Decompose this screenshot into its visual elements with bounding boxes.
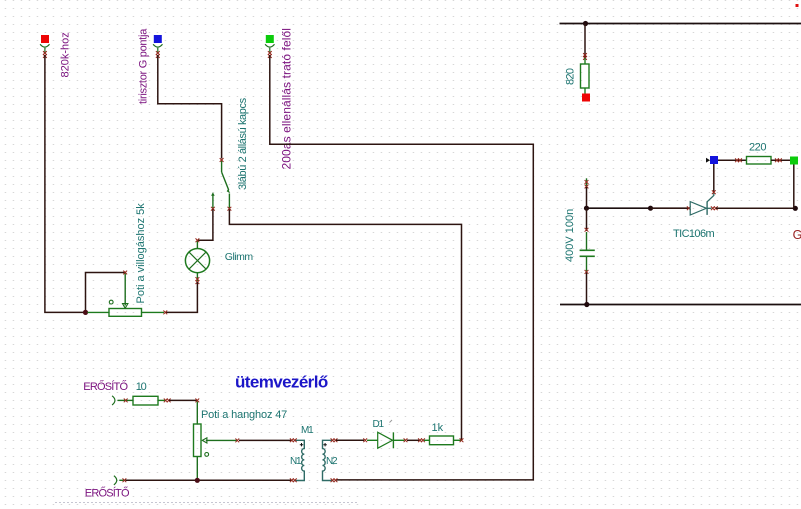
resistor 820 bottom pin: [584, 88, 586, 94]
pot wiper arrowhead: [123, 304, 128, 309]
thyristor cathode bar: [706, 201, 708, 215]
cross cap plate1: [585, 228, 589, 232]
pin stub blue square: [157, 48, 159, 54]
cross N2 top: [331, 438, 338, 442]
cross pot hanghoz top: [195, 399, 199, 403]
cross 820 top: [583, 53, 587, 60]
cross N1 top: [290, 438, 297, 442]
cross gate: [712, 190, 716, 194]
switch lever: [222, 172, 229, 190]
svg-text:ERŐSÍTŐ: ERŐSÍTŐ: [85, 486, 130, 500]
svg-text:ERŐSÍTŐ: ERŐSÍTŐ: [83, 379, 128, 393]
cross pot right: [163, 311, 167, 315]
diode D1 left pin: [367, 439, 378, 441]
wire cathode to right: [716, 207, 795, 209]
svg-text:tirisztor G pontja: tirisztor G pontja: [138, 28, 150, 104]
wire red-square net vertical: [45, 55, 86, 312]
resistor 1k left pin: [424, 439, 430, 441]
svg-text:N2: N2: [326, 456, 338, 467]
cross red square pin: [43, 51, 47, 58]
junction dot top rail: [583, 21, 588, 26]
svg-text:820k-hoz: 820k-hoz: [60, 32, 72, 77]
lamp X: [189, 252, 206, 269]
dashed sheet edge bottom: [55, 502, 358, 504]
wire left throw to lamp: [197, 210, 213, 241]
junction dot pot hanghoz bottom: [195, 478, 200, 483]
svg-text:N1: N1: [290, 456, 302, 467]
resistor 10 body: [133, 396, 158, 405]
wire bottom row: [126, 479, 293, 481]
cross EROSITO top pin: [124, 399, 128, 403]
pot hanghoz wiper line: [206, 439, 237, 441]
switch left throw arrowhead: [211, 192, 215, 195]
svg-text:400V 100n: 400V 100n: [564, 209, 576, 262]
diode D1 right pin: [393, 439, 404, 441]
svg-text:820: 820: [565, 68, 577, 85]
wire D1 to 1k: [407, 439, 421, 441]
pin stub EROSITO bottom: [119, 479, 123, 481]
svg-text:200as ellenállás trató felől: 200as ellenállás trató felől: [280, 28, 294, 170]
cross thyristor anode: [687, 206, 691, 210]
net flag blue square (tirisztor G pontja): [154, 35, 162, 43]
pot marker circle: [109, 300, 113, 304]
pin arc EROSITO bottom: [114, 476, 117, 485]
pin arc under green square: [265, 44, 274, 47]
cross wiper top: [123, 271, 127, 275]
svg-text:1k: 1k: [432, 422, 444, 434]
pot hanghoz wiper arrowhead: [202, 438, 207, 443]
net flag green square (200as): [266, 35, 274, 43]
tiny red mark top right: [796, 4, 799, 7]
wire mid rail to thyristor: [651, 207, 689, 209]
wire blue square to 220: [718, 159, 747, 161]
cross N1 bottom: [290, 478, 297, 482]
wire wiper to trafo: [239, 439, 292, 441]
cross wiper right: [235, 439, 239, 443]
cap stub top pin: [586, 178, 588, 186]
cross EROSITO bottom: [123, 478, 127, 482]
wire 220 right: [771, 159, 790, 161]
junction dot mid rail left: [584, 206, 589, 211]
resistor 820 body: [581, 64, 590, 88]
resistor 10 right pin: [158, 399, 165, 401]
pin arc EROSITO top: [112, 396, 115, 405]
wire green square down: [793, 165, 795, 209]
wire cap to bottom rail: [586, 273, 588, 305]
wire gate to blue square: [713, 164, 715, 192]
cross lamp bottom: [196, 277, 200, 284]
net flag red square 2: [582, 94, 590, 102]
mid rail: [587, 207, 691, 209]
cross D1 right: [404, 438, 408, 442]
wire N2 top to diode: [336, 439, 364, 441]
cross left throw: [211, 207, 215, 211]
svg-text:3lábú 2 állású kapcs: 3lábú 2 állású kapcs: [237, 97, 249, 190]
thyristor TIC106m triangle: [690, 202, 706, 215]
cross D1 left: [363, 438, 367, 442]
cross N2 bottom: [331, 478, 338, 482]
junction dot mid rail: [648, 206, 653, 211]
svg-text:D1: D1: [373, 419, 385, 430]
capacitor C pin2: [586, 257, 588, 272]
wire blue net: [158, 55, 222, 159]
lamp bottom pin: [196, 273, 198, 281]
capacitor C pin1: [586, 232, 588, 250]
pin stub red square: [44, 48, 46, 54]
pin arc under blue square: [153, 44, 162, 47]
cross blue square pin: [156, 51, 160, 58]
cross cap stub 1: [585, 180, 589, 184]
plus mark N1: [300, 443, 303, 446]
transformer N2 winding: [323, 440, 334, 480]
cross cathode: [711, 206, 718, 210]
junction dot pot left: [83, 310, 88, 315]
cross 1k left: [418, 438, 425, 442]
pin stub EROSITO top: [118, 399, 134, 401]
junction dot right: [793, 206, 798, 211]
cross green square pin: [268, 51, 272, 58]
glow lamp Glimm: [185, 249, 209, 273]
wire cap stub to rail: [586, 187, 588, 208]
wire rail to 820: [584, 24, 586, 59]
wire resistor to pot top: [169, 399, 197, 401]
pin stub green square: [269, 48, 271, 54]
cross 220 right: [775, 158, 782, 162]
cross cap stub 2: [585, 185, 589, 189]
blue square triangle marker: [706, 158, 710, 163]
svg-text:Glimm: Glimm: [225, 251, 254, 263]
pin arc under red square: [40, 44, 49, 47]
svg-text:10: 10: [136, 381, 147, 393]
wire cap top section: [586, 208, 588, 231]
tiny mark near D1: [390, 420, 393, 423]
top rail: [560, 23, 801, 25]
svg-text:220: 220: [749, 141, 766, 153]
svg-text:ütemvezérlő: ütemvezérlő: [235, 372, 328, 391]
svg-text:Poti a hanghoz 47: Poti a hanghoz 47: [201, 409, 287, 421]
cross cap pin2: [585, 270, 589, 274]
svg-text:M1: M1: [301, 425, 314, 436]
switch lever arrowhead: [227, 189, 230, 194]
svg-text:G: G: [793, 228, 801, 242]
wire right throw to 1k: [229, 210, 461, 441]
cross lamp top: [196, 238, 200, 242]
thyristor cathode stub: [707, 207, 711, 209]
svg-text:Poti a villogáshoz 5k: Poti a villogáshoz 5k: [135, 203, 147, 304]
capacitor plate 2: [580, 255, 595, 257]
cross resistor right: [164, 399, 171, 403]
wire green net: [270, 55, 534, 480]
net flag green square 2: [790, 157, 798, 165]
junction dot bottom rail: [584, 302, 589, 307]
diode D1 cathode bar: [392, 432, 394, 448]
pot right pin: [142, 311, 165, 313]
switch left throw pin: [212, 195, 214, 209]
pot hanghoz bottom pin: [196, 457, 198, 481]
pot hanghoz top pin: [196, 402, 198, 425]
diode D1 triangle: [378, 432, 393, 448]
transformer N1 winding: [294, 440, 304, 480]
resistor 1k right pin: [454, 439, 462, 441]
switch S1 common pin: [221, 161, 223, 173]
wire wiper loop: [86, 273, 126, 313]
cross switch common: [220, 158, 224, 162]
resistor 220 body: [747, 157, 772, 165]
cross 1k right: [460, 438, 464, 442]
bottom rail: [560, 304, 801, 306]
resistor 1k body: [430, 436, 454, 445]
net flag red square (820k-hoz): [41, 35, 49, 43]
lamp top pin: [196, 241, 198, 249]
wire lamp bottom to pot right: [166, 282, 197, 312]
pot hanghoz marker circle: [205, 453, 209, 457]
switch right throw pin: [228, 194, 230, 209]
plus mark N2: [323, 443, 326, 446]
pot wiper line: [124, 274, 126, 306]
resistor 820 top pin: [584, 58, 586, 64]
cross 220 left: [735, 158, 742, 162]
svg-text:TIC106m: TIC106m: [673, 228, 714, 240]
thyristor gate pin: [707, 191, 714, 202]
pot hanghoz body: [194, 424, 202, 457]
net flag blue square 2: [710, 156, 718, 164]
potentiometer villogashoz body: [109, 309, 142, 317]
pot left pin: [88, 311, 110, 313]
capacitor plate 1: [580, 249, 595, 251]
cross right throw: [228, 207, 232, 211]
